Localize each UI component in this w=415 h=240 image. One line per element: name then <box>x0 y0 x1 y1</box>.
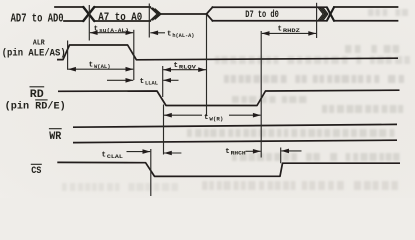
svg-text:(pin ALE/AS): (pin ALE/AS) <box>2 48 66 60</box>
svg-text:RD: RD <box>30 89 44 101</box>
svg-text:RHCH: RHCH <box>231 150 247 157</box>
svg-text:CS: CS <box>31 166 41 177</box>
svg-text:t: t <box>225 148 230 156</box>
svg-text:D7 to d0: D7 to d0 <box>245 9 278 21</box>
svg-text:ALR: ALR <box>33 39 45 47</box>
svg-text:t: t <box>94 25 99 33</box>
svg-text:W(AL): W(AL) <box>94 63 111 70</box>
svg-text:WR: WR <box>49 131 61 143</box>
svg-text:t: t <box>167 30 172 38</box>
svg-text:(pin RD/E): (pin RD/E) <box>5 100 66 112</box>
svg-text:t: t <box>204 114 209 122</box>
svg-text:h(AL-A): h(AL-A) <box>172 32 194 39</box>
svg-text:W(R): W(R) <box>209 116 223 123</box>
svg-text:t: t <box>278 26 283 34</box>
svg-text:AD7 to AD0: AD7 to AD0 <box>11 13 64 26</box>
svg-text:LLAL: LLAL <box>145 80 158 87</box>
svg-text:su(A-AL): su(A-AL) <box>99 27 129 34</box>
svg-text:t: t <box>102 151 107 159</box>
svg-text:A7 to A0: A7 to A0 <box>98 12 142 24</box>
svg-text:t: t <box>89 61 94 69</box>
svg-text:RHDZ: RHDZ <box>283 27 301 34</box>
svg-text:RLQV: RLQV <box>179 64 197 71</box>
svg-text:t: t <box>174 62 179 70</box>
svg-text:CLAL: CLAL <box>107 153 124 160</box>
svg-text:t: t <box>140 78 145 86</box>
